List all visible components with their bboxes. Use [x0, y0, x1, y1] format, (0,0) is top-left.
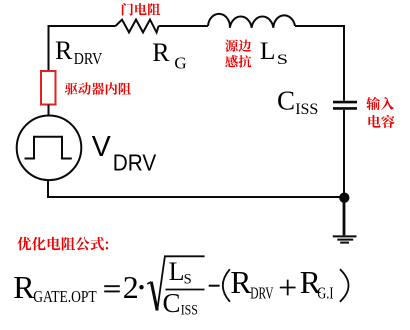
label: R_G (gate resistor designator) [152, 38, 186, 72]
resistor R_DRV (red box, driver internal resistance) [41, 71, 56, 105]
inductor L_S (4 humps) [208, 14, 295, 28]
wire: R_DRV box to V_DRV source top [48, 105, 50, 117]
wire: top rail left segment [48, 25, 116, 27]
wire: V_DRV bottom to bottom rail [47, 180, 49, 197]
svg-text:R: R [152, 38, 170, 67]
wire: from C_ISS bottom plate down to junction node [343, 110, 345, 198]
label: 门电阻 (gate resistor, red) [122, 3, 160, 16]
svg-text:L: L [169, 257, 185, 286]
capacitor C_ISS (two plates) [333, 102, 357, 108]
wire: bottom rail [47, 196, 344, 198]
label: 优化电阻公式: (optimized resistance formula heading, red) [17, 237, 108, 251]
label: 驱动器内阻 (driver internal resistance, red) [65, 82, 131, 95]
svg-text:C: C [277, 86, 295, 116]
node: junction of bottom rail, C_ISS branch and ground [339, 193, 349, 203]
wire: top rail right segment and right vertical drop to C_ISS [295, 26, 344, 101]
voltage source V_DRV (circle with pulse symbol) [17, 116, 82, 181]
label: C_ISS (input capacitance designator) [277, 86, 318, 119]
svg-text:R: R [230, 265, 251, 300]
svg-text:R: R [55, 36, 73, 65]
svg-text:V: V [92, 131, 111, 163]
label: 源边感抗 (stray inductance, red, two lines) [225, 39, 251, 67]
svg-text:ISS: ISS [295, 101, 318, 118]
label: 输入电容 (input capacitance, red, two lines) [366, 97, 394, 128]
svg-text:S: S [184, 272, 192, 288]
svg-text:G: G [174, 53, 186, 72]
svg-text:ISS: ISS [181, 303, 198, 319]
svg-text:C: C [163, 288, 181, 318]
svg-text:S: S [277, 51, 288, 68]
svg-text:DRV: DRV [250, 284, 273, 303]
label: L_S (stray inductance designator) [260, 36, 288, 67]
svg-text:2: 2 [123, 269, 139, 305]
svg-text:DRV: DRV [113, 150, 157, 176]
svg-text:DRV: DRV [74, 49, 103, 68]
formula: R_GATE.OPT = 2*sqrt(L_S/C_ISS) - (R_DRV + R_G.I) [13, 256, 348, 318]
ground symbol [333, 198, 357, 243]
wire: top rail middle segment [159, 25, 208, 27]
svg-text:R: R [13, 269, 35, 305]
resistor R_G (zigzag symbol) [116, 20, 159, 33]
svg-text:L: L [260, 36, 276, 65]
wire: left vertical from top rail down to R_DRV box [48, 25, 50, 71]
label: R_DRV (driver resistance designator) [55, 36, 103, 68]
svg-text:G.I: G.I [317, 284, 333, 303]
label: V_DRV (pulse source designator) [92, 131, 157, 175]
svg-text:GATE.OPT: GATE.OPT [33, 287, 97, 306]
